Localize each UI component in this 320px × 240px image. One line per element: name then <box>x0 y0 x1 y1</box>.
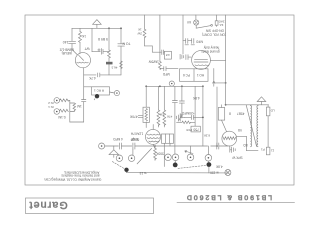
wire node K1 <box>84 74 96 76</box>
junction dot bus right <box>120 27 122 29</box>
wire plate V1 <box>92 28 100 51</box>
svg-text:5 B9 8: 5 B9 8 <box>98 37 108 41</box>
svg-text:500K: 500K <box>155 151 163 155</box>
title text LB190B & LB260D <box>177 194 295 203</box>
svg-text:IN 1: IN 1 <box>48 105 54 109</box>
resistor R5 <box>60 109 69 112</box>
node B+ bus wire <box>72 27 122 29</box>
svg-text:LB190B & LB260D: LB190B & LB260D <box>185 194 272 201</box>
resistor R6 <box>70 103 76 112</box>
svg-text:(ON VOL CONT): (ON VOL CONT) <box>202 33 226 37</box>
blob B3 <box>173 161 178 168</box>
boxes PC6 HO1 <box>180 69 209 82</box>
wire stub J12 <box>207 146 209 154</box>
capacitor C2 <box>118 28 125 75</box>
pot J10 <box>172 154 179 161</box>
capacitor C3 <box>98 73 121 77</box>
capacitor C13 <box>98 49 109 55</box>
label on-off <box>202 29 226 37</box>
box B2 <box>164 51 171 59</box>
svg-text:140: 140 <box>63 40 69 44</box>
svg-text:4.8: 4.8 <box>166 53 170 57</box>
input jack J1 <box>54 98 60 104</box>
capacitor C4 <box>162 50 165 55</box>
jack J3 <box>110 91 120 96</box>
svg-text:8.2K: 8.2K <box>203 134 210 138</box>
rail wire <box>146 85 203 87</box>
tube V1 <box>75 53 90 68</box>
svg-text:4.8K: 4.8K <box>215 164 222 168</box>
resistor R8 <box>157 86 160 127</box>
ground G5 <box>232 147 236 153</box>
ground G1 <box>93 20 102 29</box>
svg-text:4 MFD: 4 MFD <box>112 137 123 141</box>
transformer T1 winding right <box>257 106 258 147</box>
wire stub J11 <box>190 146 192 154</box>
pot J9 <box>165 154 172 161</box>
label V1 type <box>59 48 73 55</box>
svg-text:4.7K: 4.7K <box>88 76 96 80</box>
wire col x160 <box>158 15 161 70</box>
wire col PC2 <box>202 86 204 146</box>
svg-text:470K: 470K <box>129 115 138 119</box>
label heavy leads <box>201 46 220 54</box>
label fuse <box>218 20 225 27</box>
svg-text:Garnet: Garnet <box>28 199 67 211</box>
input jack J2 <box>54 109 60 115</box>
wire input join <box>68 100 83 122</box>
svg-text:11: 11 <box>271 149 274 153</box>
resistor R11 horizontal <box>177 121 196 124</box>
title block Garnet logo box <box>26 198 154 214</box>
wire V1 cathode <box>83 68 85 75</box>
capacitor CC1 <box>120 143 132 149</box>
svg-text:Garnet Amplifier Co.Ltd. Winni: Garnet Amplifier Co.Ltd. Winnipeg,Can. <box>44 177 102 181</box>
wire speaker to OT <box>237 136 258 150</box>
switch SW1 <box>196 25 212 29</box>
pot J8 <box>128 149 134 161</box>
wire controls <box>105 145 119 147</box>
svg-text:PC 6: PC 6 <box>183 73 190 77</box>
jack J4 <box>169 81 174 86</box>
resistor R2 <box>79 28 82 53</box>
ground G3 <box>180 54 184 59</box>
jack J5 <box>225 170 231 176</box>
svg-text:750: 750 <box>193 127 199 131</box>
tube V2 <box>146 125 161 149</box>
resistor R3 <box>108 28 111 75</box>
svg-text:w 15: w 15 <box>139 171 146 175</box>
svg-text:0.1M: 0.1M <box>58 115 66 119</box>
svg-text:PC8: PC8 <box>186 128 192 132</box>
transformer connect top <box>251 104 259 107</box>
svg-text:MFD: MFD <box>195 40 203 44</box>
junction dots misc <box>154 82 226 147</box>
resistor R4 <box>60 99 69 102</box>
address text block <box>44 170 102 181</box>
svg-text:1 MF: 1 MF <box>131 137 139 141</box>
wire V3 plate <box>210 15 225 105</box>
capacitor C12 <box>186 55 191 60</box>
svg-text:3A: 3A <box>220 23 224 27</box>
label col resistor <box>137 28 142 36</box>
wire feedback <box>213 69 226 87</box>
svg-text:V8: V8 <box>238 128 242 132</box>
wire OT box feed <box>163 144 165 167</box>
ground G6 <box>109 146 119 157</box>
capacitor C8 <box>179 86 184 118</box>
tube V3 <box>192 51 211 70</box>
resistor R3b <box>106 62 113 65</box>
svg-text:P1: P1 <box>261 147 265 151</box>
capacitor C5 <box>160 67 178 71</box>
resistor RE <box>266 147 270 155</box>
wire speaker bottom <box>230 146 232 152</box>
ground G4 <box>257 97 266 105</box>
svg-text:WT: WT <box>84 46 89 50</box>
svg-text:1K: 1K <box>138 28 142 32</box>
svg-text:SPK W: SPK W <box>232 156 242 160</box>
wire col x217 <box>216 87 218 146</box>
ground G2 <box>177 114 185 122</box>
reverb box R RC-1 <box>84 87 110 95</box>
capacitor C6 <box>138 115 143 117</box>
border frame <box>25 15 294 185</box>
svg-text:HO 1: HO 1 <box>197 73 205 77</box>
jack J6 <box>99 143 105 149</box>
label heater volts <box>111 65 117 69</box>
wire grid V1 down <box>82 75 86 122</box>
svg-text:45B7: 45B7 <box>237 112 245 116</box>
capacitor C10 <box>185 39 192 45</box>
resistor R10 <box>120 61 123 69</box>
svg-text:6BM8-1/2: 6BM8-1/2 <box>59 48 73 52</box>
pot arrow A1 <box>185 150 193 153</box>
svg-text:8Ω: 8Ω <box>243 143 248 147</box>
transformer T1 winding left <box>251 106 252 147</box>
resistor RD <box>266 105 270 147</box>
svg-text:1M: 1M <box>159 113 164 117</box>
speaker SP1 <box>222 131 237 146</box>
junction dot on bus <box>108 27 110 29</box>
svg-text:12AX7A: 12AX7A <box>130 131 143 135</box>
svg-text:47K: 47K <box>166 115 172 119</box>
svg-text:ON-OFF SW: ON-OFF SW <box>206 29 224 33</box>
svg-text:8: 8 <box>229 112 231 116</box>
svg-text:R RC-1: R RC-1 <box>94 89 104 93</box>
dashed link D1 <box>112 162 124 169</box>
svg-text:46.3: 46.3 <box>111 65 117 69</box>
svg-text:(6EU8): (6EU8) <box>62 51 72 55</box>
wire col 750 <box>194 86 196 126</box>
capacitor CC2 <box>133 143 208 149</box>
capacitor CF <box>211 143 228 149</box>
wire OT top <box>226 104 269 106</box>
label R8 R9 <box>159 113 172 119</box>
junction blob B1 <box>94 94 99 100</box>
capacitor C7 <box>172 86 177 154</box>
capacitor C1 <box>69 28 78 54</box>
junction dots rail <box>145 85 204 87</box>
svg-text:IN 2: IN 2 <box>48 101 54 105</box>
svg-text:TO N: TO N <box>122 42 131 46</box>
diagonal D5 <box>137 148 152 164</box>
resistor R7 box <box>143 86 149 127</box>
blob B4 <box>207 161 212 173</box>
svg-text:and tremolo Tone-masters: and tremolo Tone-masters <box>61 174 100 178</box>
dashed link D3 <box>178 165 206 168</box>
svg-text:1M: 1M <box>77 104 82 108</box>
label inputs <box>48 101 54 109</box>
resistor RG <box>154 146 157 160</box>
switch lever T1 <box>246 105 256 147</box>
svg-text:+20MFD: +20MFD <box>181 111 194 115</box>
svg-text:heavy duty: heavy duty <box>203 46 219 50</box>
svg-text:MFD: MFD <box>162 72 170 76</box>
svg-text:2W: 2W <box>137 31 142 35</box>
svg-text:4.8K: 4.8K <box>192 96 200 100</box>
pot J11 <box>187 154 194 161</box>
svg-text:1M/5W: 1M/5W <box>149 59 159 63</box>
lamp L1 <box>194 15 199 28</box>
blob B2 <box>124 168 128 172</box>
pot J12 <box>205 155 212 162</box>
wire col left mid with resistor <box>143 15 161 52</box>
resistor box RC <box>218 105 226 132</box>
capacitor C9 <box>185 115 203 119</box>
capacitor C11 <box>191 39 195 45</box>
svg-text:ground leads: ground leads <box>201 50 220 54</box>
box PC2 <box>191 126 200 132</box>
resistor R9 <box>163 86 166 127</box>
pot arrow A2 <box>178 115 182 122</box>
wire bottom <box>127 171 229 174</box>
OT box <box>162 134 174 146</box>
filter cap stub <box>183 15 186 54</box>
fuse F1 <box>215 15 218 27</box>
pot J7 <box>116 155 122 161</box>
svg-text:w 150: w 150 <box>210 171 219 175</box>
